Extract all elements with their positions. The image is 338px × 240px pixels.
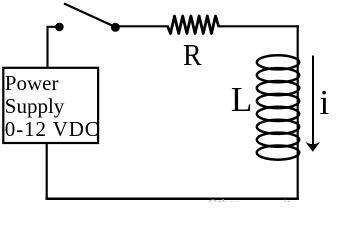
inductor L coil loop 8 [257,146,299,160]
wire: bottom horizontal [46,197,299,200]
label L (inductor) [231,82,252,117]
current arrow i (shaft) [312,56,314,145]
wire: left vertical from box bottom to bottom wire [46,143,48,200]
label i (current) [320,85,330,120]
faint cropped caption text at bottom edge [0,197,338,202]
inductor L coil loop 5 [257,107,299,121]
node: switch right terminal dot [111,23,120,32]
inductor L coil loop 3 [257,81,299,95]
label R (resistor) [183,39,202,70]
wire: top horizontal from switch right node to resistor [115,25,169,27]
power supply box outline [3,68,98,143]
resistor R (zigzag) [168,16,219,34]
inductor L coil loop 6 [257,120,299,134]
switch SW1 (open) lever [64,4,115,28]
node: switch left terminal dot [55,23,64,32]
wire: top horizontal from resistor to top-right corner [218,25,299,27]
inductor L coil loop 4 [257,94,299,108]
wire: right vertical through inductor [297,25,299,199]
power supply box text: Power / Supply / 0-12 VDC [5,72,100,140]
inductor L coil loop 1 [257,55,299,69]
inductor L coil loop 7 [257,133,299,147]
inductor L coil loop 2 [257,68,299,82]
wire: left vertical from switch to power supply box [48,27,60,68]
current arrow i (head) [306,142,321,152]
